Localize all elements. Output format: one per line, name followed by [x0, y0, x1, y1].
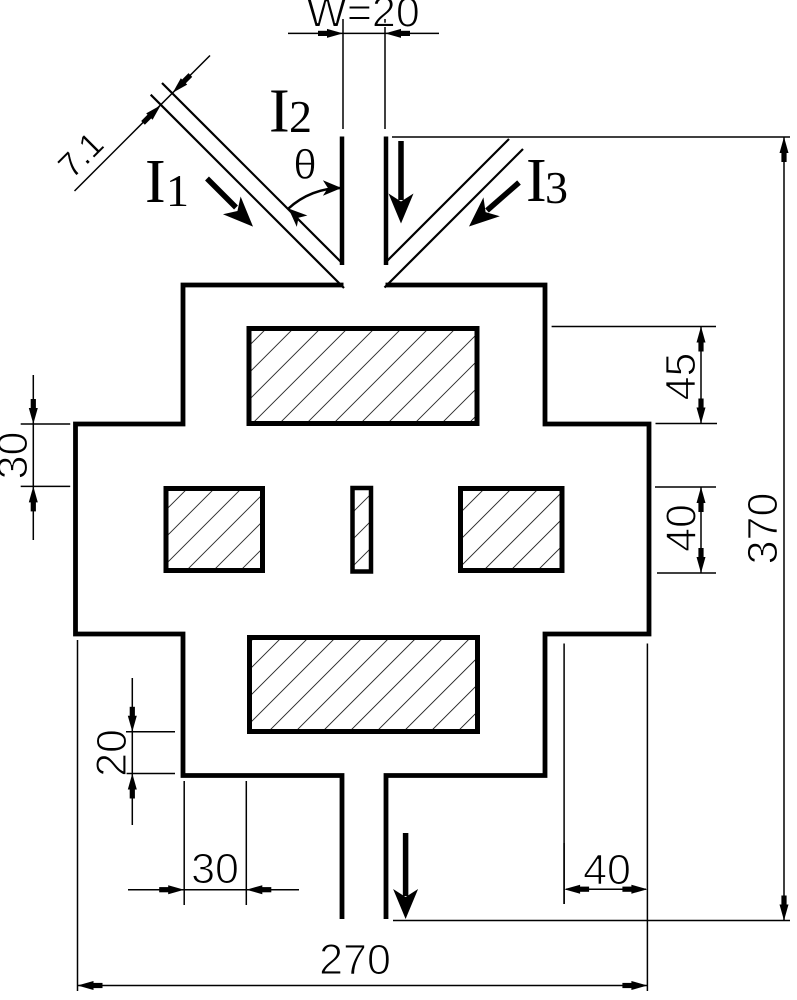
dimension 20: extension bottom	[126, 773, 175, 775]
dimension 270: extension right	[646, 644, 648, 992]
dimension 270: extension left	[77, 640, 79, 991]
inlet channel I1 inner wall	[162, 83, 343, 264]
svg-text:3: 3	[545, 162, 568, 213]
svg-text:40: 40	[658, 504, 706, 552]
svg-text:45: 45	[657, 353, 705, 401]
flow arrow I1	[207, 179, 236, 208]
dimension 40 right: line	[700, 487, 702, 573]
svg-text:2: 2	[289, 91, 312, 142]
svg-text:270: 270	[319, 936, 391, 984]
center thin hatched slot	[353, 488, 372, 572]
top hatched rectangle	[249, 329, 477, 424]
angle theta arrow left	[283, 203, 307, 227]
dimension 370: line	[783, 137, 785, 921]
dimension 7.1 arrow lower	[140, 102, 164, 126]
inlet channel I1 outer wall	[151, 95, 344, 288]
dimension 30 bottom: extension right	[245, 781, 247, 905]
dimension 40 bottom: extension left	[563, 843, 565, 904]
svg-text:I: I	[269, 78, 290, 146]
dimension 30 bottom: line	[128, 889, 299, 891]
top channel extension line right	[384, 19, 386, 129]
dimension 40 right square left extension	[563, 644, 565, 905]
dimension 20: extension top	[126, 731, 175, 733]
dimension 30 left: extension bottom	[21, 485, 70, 487]
svg-text:W=20: W=20	[306, 0, 420, 37]
dimension 30 bottom: extension left	[183, 781, 185, 905]
svg-text:I: I	[145, 148, 166, 216]
dimension W=20 arrow right	[385, 29, 410, 38]
dimension 20: arrows	[128, 707, 137, 732]
inlet channel I3 outer wall	[385, 149, 524, 288]
dimension 45 right: line	[700, 327, 702, 424]
svg-text:30: 30	[191, 845, 239, 893]
svg-text:θ: θ	[293, 141, 316, 188]
top channel wall right (thick)	[384, 137, 389, 266]
flow arrow I3	[487, 183, 519, 211]
svg-text:20: 20	[88, 729, 136, 777]
left middle hatched square	[166, 489, 263, 571]
dimension 45 right: arrows	[697, 327, 706, 352]
top channel extension line left	[342, 19, 344, 129]
bottom hatched rectangle	[250, 638, 478, 732]
dimension 270: line	[78, 985, 648, 987]
dimension W=20 arrow left	[318, 29, 343, 38]
flow arrow I2	[398, 141, 404, 200]
angle theta arc	[289, 188, 342, 209]
dimension 370: extension bottom	[393, 920, 790, 922]
svg-text:30: 30	[0, 432, 37, 480]
body outline	[76, 285, 650, 919]
dimension 40 right: arrows	[697, 487, 706, 512]
inlet channel I3 inner wall	[385, 139, 509, 263]
dimension 40 bottom: arrows	[564, 885, 589, 894]
svg-text:1: 1	[166, 165, 189, 216]
svg-text:I: I	[526, 147, 547, 215]
dimension 30 left: extension top	[21, 423, 70, 425]
dimension 7.1 line	[75, 56, 211, 192]
top channel wall left (thick)	[340, 137, 345, 266]
dimension 370: extension top	[392, 136, 790, 138]
dimension 370: arrows	[780, 137, 789, 162]
dimension 30 left: line	[32, 375, 34, 540]
flow arrow bottom outlet	[403, 833, 409, 896]
dimension 45 right: extension top	[552, 326, 716, 328]
dimension 40 right: extension top	[655, 486, 716, 488]
dimension W=20 line	[288, 32, 439, 34]
angle theta arrow right	[323, 180, 342, 196]
dimension 7.1 arrow upper	[170, 72, 194, 96]
dimension 270: arrows	[78, 981, 103, 990]
right middle hatched square	[461, 489, 563, 571]
svg-text:370: 370	[739, 493, 787, 565]
dimension 40 bottom: line	[566, 888, 646, 890]
svg-text:40: 40	[583, 846, 631, 894]
dimension 20 lower-left: line	[131, 678, 133, 825]
dimension 30 left: arrows	[29, 399, 38, 424]
dimension 40 right: extension bottom	[657, 572, 716, 574]
dimension 45 right: extension bottom	[656, 423, 718, 425]
dimension 30 bottom: arrows	[159, 885, 184, 894]
